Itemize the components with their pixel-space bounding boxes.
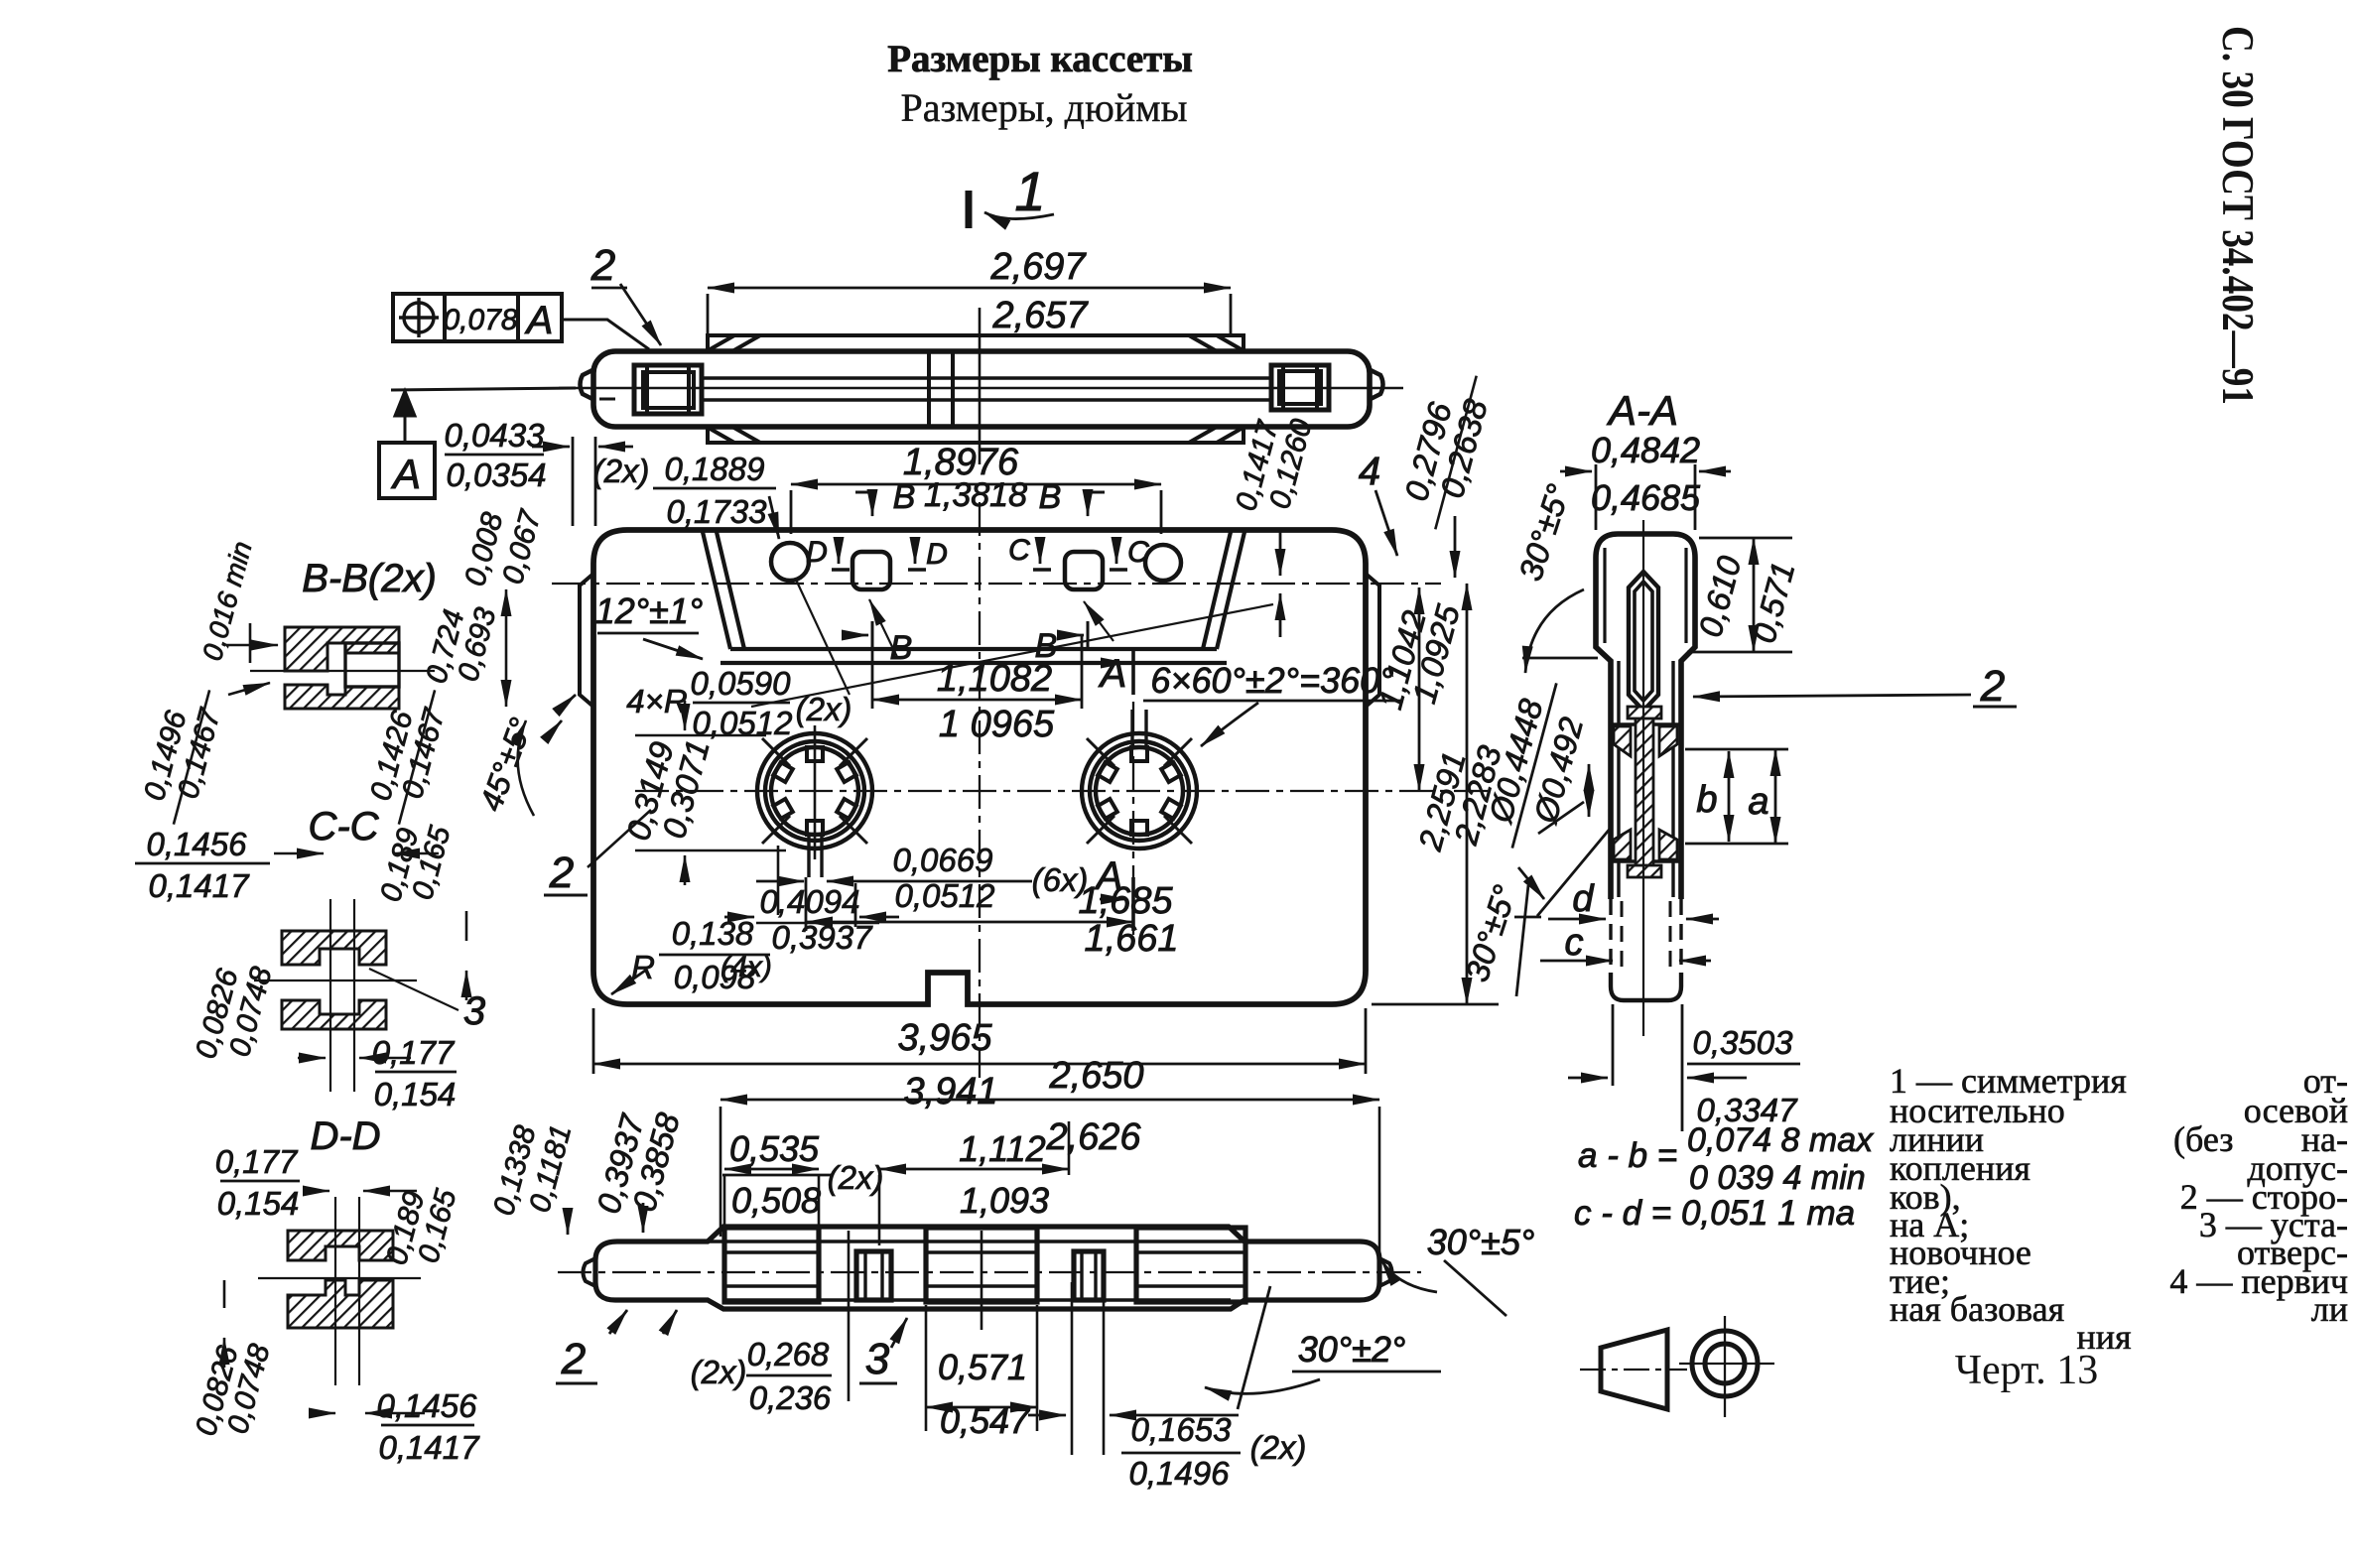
b and a dims [1685, 749, 1788, 844]
dim 1,8976 [791, 484, 1161, 534]
cassette front outline with bottom notch [593, 530, 1366, 1004]
0,610/0,571 [1687, 538, 1792, 652]
svg-text:D-D: D-D [310, 1114, 380, 1158]
svg-text:2: 2 [561, 1335, 586, 1383]
dim 2,697 / 2,657 [708, 288, 1231, 333]
svg-text:0,236: 0,236 [749, 1379, 832, 1416]
svg-text:0,1417: 0,1417 [379, 1429, 481, 1466]
svg-text:Размеры, дюймы: Размеры, дюймы [900, 85, 1187, 130]
dim 0,4094/0,3937 [724, 883, 899, 927]
bottom view dims [720, 1107, 1379, 1455]
centerlines of front view [552, 502, 1489, 1078]
svg-text:4: 4 [1359, 450, 1380, 493]
svg-text:0,4685: 0,4685 [1591, 477, 1701, 518]
svg-text:0,1417: 0,1417 [149, 867, 251, 904]
svg-text:0,3503: 0,3503 [1693, 1024, 1794, 1061]
svg-text:2,650: 2,650 [1048, 1055, 1143, 1097]
svg-text:0,508: 0,508 [731, 1180, 821, 1221]
svg-text:(2x): (2x) [691, 1354, 747, 1390]
dia rotated fraction [1476, 674, 1598, 859]
svg-text:4×R: 4×R [626, 683, 687, 719]
dim 1,685/1,661 [806, 877, 1133, 931]
dim 1,1082 / 1 0965 [872, 635, 1082, 709]
capstan square holes [852, 552, 890, 589]
svg-text:(2x): (2x) [593, 453, 650, 489]
window blocks [724, 1228, 819, 1302]
svg-text:A: A [1099, 652, 1127, 696]
svg-text:c: c [1565, 922, 1584, 964]
svg-text:0,0512: 0,0512 [895, 877, 995, 914]
svg-text:0,1733: 0,1733 [667, 493, 768, 530]
svg-text:a: a [1748, 781, 1768, 823]
svg-text:D: D [926, 538, 948, 571]
svg-text:0,177: 0,177 [215, 1143, 299, 1180]
A section marks [1100, 651, 1133, 931]
svg-text:B: B [1039, 478, 1062, 516]
svg-text:6×60°±2°=360°: 6×60°±2°=360° [1150, 660, 1393, 701]
svg-text:1,661: 1,661 [1084, 918, 1178, 960]
svg-text:0,078: 0,078 [443, 304, 517, 336]
svg-text:B: B [893, 478, 916, 516]
bottom view outline [595, 1227, 1379, 1309]
svg-text:3: 3 [463, 989, 485, 1033]
tape window slot [1629, 572, 1658, 711]
svg-text:0,1456: 0,1456 [377, 1387, 478, 1424]
svg-text:0,154: 0,154 [217, 1185, 300, 1222]
head trapezoid slants [703, 532, 1244, 649]
svg-text:C: C [1127, 536, 1149, 569]
svg-text:2,657: 2,657 [991, 295, 1089, 336]
svg-text:С. 30 ГОСТ 34.402—91: С. 30 ГОСТ 34.402—91 [2213, 26, 2264, 405]
svg-text:ная базовая: ная базовая [1890, 1289, 2064, 1329]
svg-text:0,0590: 0,0590 [691, 665, 792, 702]
svg-text:0,1653: 0,1653 [1131, 1411, 1233, 1448]
svg-text:b: b [1696, 779, 1717, 821]
svg-text:1 0965: 1 0965 [939, 704, 1055, 745]
svg-text:c - d = 0,051 1 ma: c - d = 0,051 1 ma [1574, 1194, 1855, 1233]
svg-text:0,3937: 0,3937 [772, 919, 874, 956]
svg-text:0,138: 0,138 [672, 915, 754, 952]
datum feature frame [393, 294, 649, 349]
dim 0,535/0,508 [724, 1168, 819, 1171]
svg-text:ли: ли [2311, 1289, 2348, 1329]
svg-text:a - b =: a - b = [1578, 1136, 1677, 1175]
svg-text:0,4842: 0,4842 [1591, 430, 1700, 470]
svg-text:0,0669: 0,0669 [893, 842, 993, 878]
svg-text:A-A: A-A [1606, 387, 1678, 434]
right side tab [1366, 574, 1379, 707]
svg-text:2: 2 [590, 241, 615, 290]
svg-text:0,4094: 0,4094 [760, 883, 860, 920]
svg-text:(2x): (2x) [828, 1159, 884, 1196]
top flange [708, 335, 1244, 350]
guide circle holes [771, 543, 809, 581]
right latch detail [1271, 365, 1329, 410]
svg-text:3: 3 [865, 1335, 890, 1383]
svg-text:R: R [631, 949, 655, 985]
datum A symbol [379, 388, 576, 498]
dim 0,0669/0,0512 (6x) [756, 880, 1032, 883]
dim 3,965/3,941 [593, 1008, 1366, 1074]
page titles [887, 26, 2264, 405]
bottom flange [708, 428, 1244, 443]
svg-text:0,1889: 0,1889 [665, 451, 765, 487]
svg-text:D: D [806, 536, 828, 569]
0,1653/0,1496 (2x) [1028, 1414, 1239, 1417]
svg-text:12°±1°: 12°±1° [595, 590, 704, 631]
svg-text:1,093: 1,093 [960, 1180, 1049, 1221]
svg-text:C-C: C-C [308, 805, 379, 849]
svg-text:A: A [390, 451, 421, 497]
svg-text:2,626: 2,626 [1045, 1116, 1141, 1158]
vertical dims right: 1,1042/1,0925 and 2,2591/2,2283 [1372, 584, 1499, 1004]
svg-text:A: A [525, 299, 554, 342]
svg-text:2: 2 [549, 849, 574, 897]
left latch detail [634, 365, 702, 414]
A-A dims [1560, 464, 1731, 530]
svg-text:30°±5°: 30°±5° [1427, 1222, 1535, 1262]
projection symbol [1601, 1330, 1758, 1409]
cassette top view body [593, 351, 1370, 427]
hidden walls [1611, 899, 1681, 975]
svg-text:0,268: 0,268 [747, 1336, 830, 1372]
hub hatched parts [1614, 707, 1677, 877]
left tip nub [581, 369, 595, 400]
left side tab [580, 574, 593, 707]
svg-text:1,3818: 1,3818 [924, 476, 1027, 514]
mark 1 tick [969, 160, 1054, 228]
svg-text:0 039 4 min: 0 039 4 min [1689, 1159, 1866, 1197]
svg-text:0,154: 0,154 [374, 1076, 457, 1112]
dim 0,0433/0,0354 [445, 437, 633, 526]
svg-text:0,0433: 0,0433 [445, 417, 546, 454]
svg-text:0,074 8 max: 0,074 8 max [1687, 1121, 1874, 1159]
dim 2,650/2,626 [720, 1099, 1379, 1102]
svg-text:(4x): (4x) [720, 951, 772, 983]
svg-text:(2x): (2x) [1250, 1429, 1307, 1466]
centerline of top view [559, 387, 1403, 390]
inner walls [1617, 661, 1620, 897]
dim 1,112/1,093 [879, 1168, 1069, 1171]
svg-text:B-B(2x): B-B(2x) [302, 557, 437, 600]
svg-text:(без: (без [2173, 1119, 2233, 1159]
A-A outer shape [1596, 534, 1695, 899]
long leader through squares [751, 599, 1273, 707]
lower B marks [842, 621, 1088, 649]
svg-text:2,697: 2,697 [989, 246, 1087, 288]
svg-text:30°±2°: 30°±2° [1298, 1329, 1406, 1370]
svg-text:1,685: 1,685 [1078, 880, 1173, 922]
left hub [757, 733, 872, 877]
vertical seams [927, 351, 931, 427]
svg-text:0,1456: 0,1456 [147, 826, 248, 862]
svg-text:0,1496: 0,1496 [1129, 1455, 1231, 1492]
svg-text:0,571: 0,571 [938, 1347, 1027, 1387]
right hub [1082, 710, 1197, 849]
svg-text:0,0354: 0,0354 [447, 457, 547, 493]
svg-text:1,1082: 1,1082 [937, 658, 1052, 700]
svg-text:3,965: 3,965 [897, 1017, 992, 1059]
svg-text:C: C [1008, 534, 1030, 567]
svg-text:1: 1 [1014, 160, 1045, 222]
symmetry axis [979, 308, 982, 464]
0,3503/0,3347 [1568, 1004, 1800, 1131]
svg-text:0,535: 0,535 [729, 1128, 820, 1169]
svg-text:3,941: 3,941 [903, 1071, 997, 1112]
svg-text:1,112: 1,112 [959, 1128, 1045, 1169]
svg-text:d: d [1572, 878, 1595, 920]
leader 2 (top view) [591, 284, 661, 345]
svg-text:0,177: 0,177 [372, 1034, 456, 1071]
right tip nub [1369, 369, 1383, 400]
hub region [1611, 722, 1681, 725]
svg-text:2: 2 [1980, 662, 2005, 711]
dim (2x) 0,1889/0,1733 [653, 488, 850, 695]
svg-text:Черт. 13: Черт. 13 [1955, 1348, 2099, 1393]
svg-text:Размеры кассеты: Размеры кассеты [887, 38, 1193, 80]
